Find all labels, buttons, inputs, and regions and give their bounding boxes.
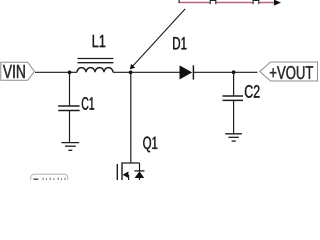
inductor L1 [77,59,113,73]
label L1 [93,35,105,47]
wire diode to node B [194,71,258,73]
node B junction dot [232,70,236,74]
capacitor C1 [58,106,79,142]
wire VIN to node A [35,71,77,73]
red current path line [179,2,274,4]
annotation arrow to switch node [130,9,185,70]
red path component ticks pair 2 [253,0,259,4]
port VIN [1,62,35,80]
wire node B down to C2 [233,72,235,95]
label C2 [245,85,260,98]
label Q1 [143,137,157,153]
node SW junction dot [129,71,133,75]
ground for C1 [62,143,80,151]
node A junction dot [68,70,72,74]
red path start tick [178,0,180,3]
wire node SW down to Q1 drain [130,72,132,163]
UI tooltip box bottom-left (clipped) [31,174,68,186]
label C1 [82,97,94,110]
capacitor C2 [223,96,244,133]
diode D1 [180,65,194,79]
red path component ticks pair 1 [210,0,216,4]
wire L1 to diode [113,71,180,73]
label D1 [173,37,186,49]
port +VOUT [260,62,318,81]
wire node A down to C1 [69,72,71,105]
red path arrowhead [274,0,281,6]
transistor Q1 (NMOS with body diode, clipped at bottom) [117,162,144,180]
ground for C2 [225,134,242,141]
